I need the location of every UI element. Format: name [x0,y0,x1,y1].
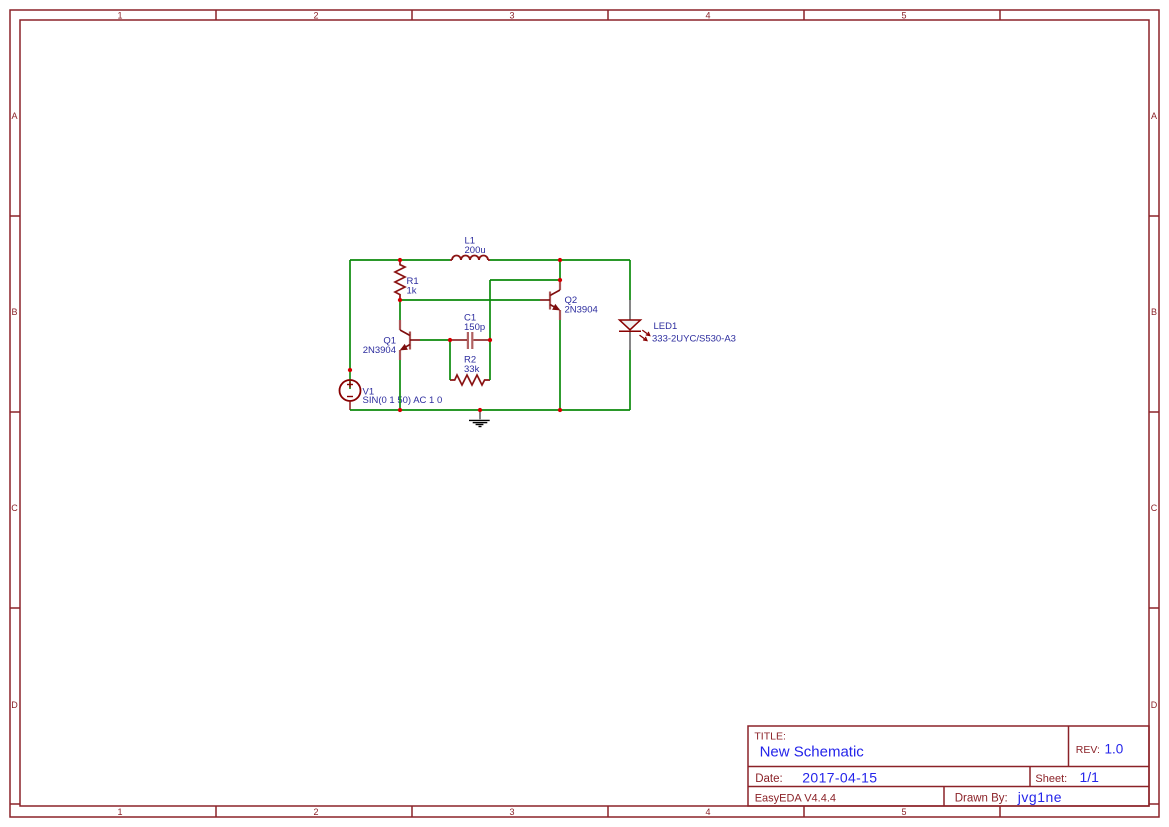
svg-text:REV:: REV: [1076,744,1100,756]
resistor R2 [450,375,490,385]
junction bottom bus at x400 [398,408,402,412]
svg-text:5: 5 [901,11,906,21]
wire top bus to Q2 collector [559,260,561,280]
transistor Q1 [400,320,420,360]
capacitor C1 [450,332,490,349]
svg-text:3: 3 [509,11,514,21]
junction C1 right [488,338,492,342]
junction top bus at x560 [558,258,562,262]
svg-text:5: 5 [901,807,906,817]
svg-text:C: C [11,503,18,513]
svg-text:jvg1ne: jvg1ne [1017,789,1062,805]
svg-text:2N3904: 2N3904 [363,345,396,356]
wire bottom bus [350,409,630,411]
wire feedback vertical [489,280,491,380]
svg-text:3: 3 [509,807,514,817]
svg-text:1/1: 1/1 [1080,769,1100,785]
svg-text:A: A [1151,111,1157,121]
svg-text:B: B [11,307,17,317]
wire Q1 emitter to bottom bus [399,360,401,410]
svg-text:2: 2 [313,807,318,817]
svg-text:A: A [11,111,17,121]
wire top bus left segment [350,259,450,261]
svg-text:1: 1 [117,11,122,21]
svg-text:200u: 200u [465,245,486,256]
svg-text:2017-04-15: 2017-04-15 [802,770,877,786]
svg-text:EasyEDA V4.4.4: EasyEDA V4.4.4 [755,793,836,805]
junction at V1 top [348,368,352,372]
svg-text:TITLE:: TITLE: [754,731,786,743]
svg-text:333-2UYC/S530-A3: 333-2UYC/S530-A3 [652,334,736,345]
svg-text:1.0: 1.0 [1105,742,1124,757]
junction bottom bus at x560 [558,408,562,412]
wire left rail [349,260,351,370]
svg-text:33k: 33k [464,364,480,375]
wire feedback horizontal [490,279,560,281]
junction bottom bus at ground [478,408,482,412]
LED LED1 [619,300,650,350]
svg-text:SIN(0 1 50) AC 1 0: SIN(0 1 50) AC 1 0 [363,395,443,406]
wire Q2 emitter to bottom bus [559,320,561,410]
svg-text:C: C [1151,503,1158,513]
svg-text:Sheet:: Sheet: [1035,773,1067,785]
svg-text:New Schematic: New Schematic [760,744,865,761]
svg-text:Drawn By:: Drawn By: [955,793,1008,805]
junction R1 top [398,258,402,262]
wire R1 bottom to Q2 base [400,299,540,301]
junction Q2 collector [558,278,562,282]
svg-text:D: D [1151,700,1158,710]
svg-text:1: 1 [117,807,122,817]
voltage source V1 [340,370,361,410]
wire Q1 collector [399,300,401,320]
svg-text:B: B [1151,307,1157,317]
svg-text:2N3904: 2N3904 [565,305,598,316]
svg-text:4: 4 [705,11,710,21]
svg-text:150p: 150p [464,322,485,333]
junction R1 bottom [398,298,402,302]
svg-text:1k: 1k [407,286,417,297]
wire node to R2 left [449,340,451,380]
junction C1 left [448,338,452,342]
svg-text:D: D [11,700,18,710]
inductor L1 [450,256,490,261]
ground [469,411,490,427]
transistor Q2 [540,280,560,320]
svg-text:LED1: LED1 [654,321,678,332]
wire right rail top [629,260,631,300]
svg-text:4: 4 [705,807,710,817]
wire Q1 base to node [420,339,450,341]
svg-text:2: 2 [313,11,318,21]
svg-text:Date:: Date: [755,773,783,785]
wire right rail bottom [629,350,631,410]
resistor R1 [395,260,405,300]
wire top bus right segment [490,259,630,261]
